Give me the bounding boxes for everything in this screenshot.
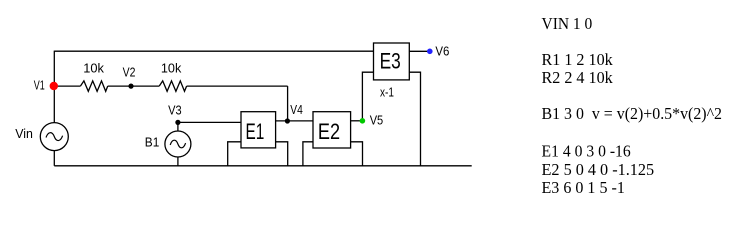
- svg-text:V4: V4: [290, 102, 303, 117]
- svg-text:V2: V2: [123, 65, 136, 80]
- svg-text:E1 4 0 3 0 -16: E1 4 0 3 0 -16: [542, 142, 631, 161]
- svg-text:E3: E3: [380, 49, 401, 74]
- svg-text:10k: 10k: [83, 61, 104, 76]
- svg-text:B1: B1: [145, 134, 160, 149]
- svg-text:E2 5 0 4 0 -1.125: E2 5 0 4 0 -1.125: [542, 160, 655, 179]
- svg-text:E1: E1: [246, 119, 265, 144]
- svg-text:E2: E2: [318, 119, 340, 144]
- svg-text:x-1: x-1: [380, 85, 394, 100]
- svg-text:V1: V1: [34, 78, 45, 93]
- svg-text:Vin: Vin: [15, 126, 33, 141]
- svg-text:B1 3 0 v = v(2)+0.5*v(2)^2: B1 3 0 v = v(2)+0.5*v(2)^2: [542, 104, 723, 123]
- svg-text:VIN 1 0: VIN 1 0: [542, 14, 593, 33]
- svg-text:V5: V5: [370, 113, 384, 128]
- svg-text:V6: V6: [435, 44, 449, 59]
- svg-text:E3 6 0 1 5 -1: E3 6 0 1 5 -1: [542, 178, 625, 197]
- svg-text:R1 1 2 10k: R1 1 2 10k: [542, 50, 614, 69]
- svg-text:10k: 10k: [161, 61, 182, 76]
- svg-text:V3: V3: [168, 102, 182, 117]
- svg-text:R2 2 4 10k: R2 2 4 10k: [542, 68, 614, 87]
